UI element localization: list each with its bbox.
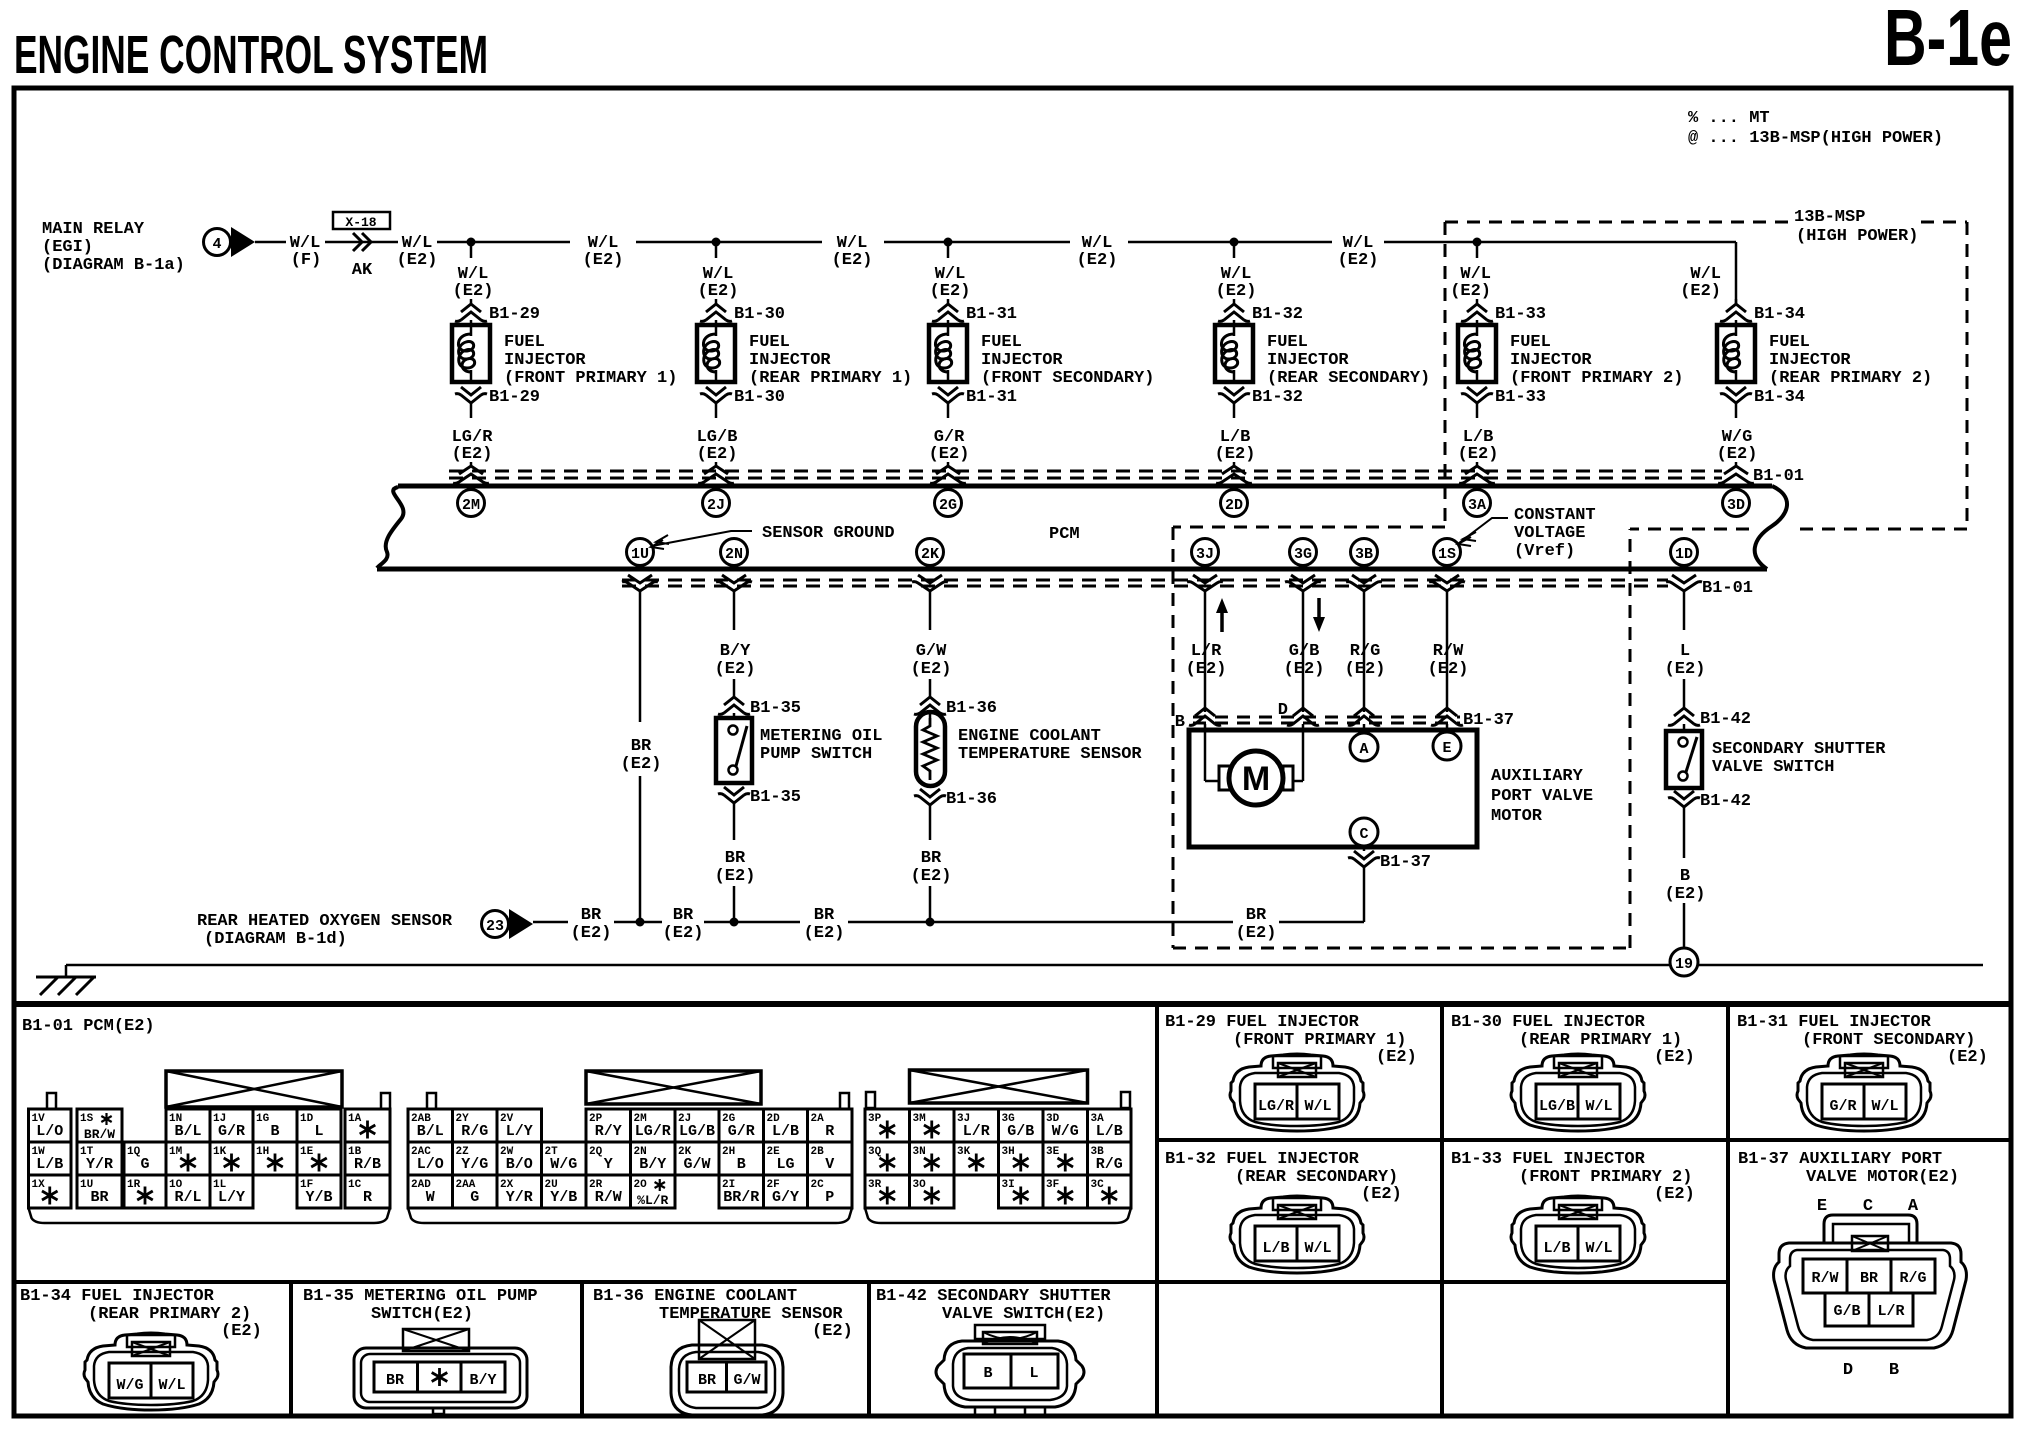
svg-text:2Q: 2Q <box>589 1146 603 1158</box>
svg-text:4: 4 <box>212 236 221 253</box>
svg-text:R/Y: R/Y <box>595 1123 622 1140</box>
svg-text:Y/B: Y/B <box>305 1189 332 1206</box>
svg-text:1Q: 1Q <box>127 1146 141 1158</box>
PCM left torn-edge squiggle <box>377 487 403 568</box>
svg-text:B1-34: B1-34 <box>1754 305 1805 324</box>
svg-text:(E2): (E2) <box>1284 660 1325 679</box>
svg-text:B1-32: B1-32 <box>1252 305 1303 324</box>
svg-text:REAR HEATED OXYGEN SENSOR: REAR HEATED OXYGEN SENSOR <box>197 912 453 931</box>
svg-text:G: G <box>140 1156 149 1173</box>
svg-text:13B-MSP: 13B-MSP <box>1794 208 1865 227</box>
junction BR/1U <box>636 918 645 927</box>
svg-text:G/R: G/R <box>218 1123 245 1140</box>
svg-text:BR: BR <box>673 906 694 925</box>
svg-text:B1-37: B1-37 <box>1380 853 1431 872</box>
svg-text:3H: 3H <box>1002 1146 1015 1158</box>
connector boundary B1-01 upper <box>449 470 1722 473</box>
injector coil <box>1735 320 1738 325</box>
svg-text:1U: 1U <box>631 546 649 563</box>
svg-text:FUEL: FUEL <box>504 333 545 352</box>
svg-text:(E2): (E2) <box>1665 660 1706 679</box>
svg-text:AK: AK <box>352 261 373 280</box>
svg-text:SENSOR GROUND: SENSOR GROUND <box>762 524 895 543</box>
svg-text:(E2): (E2) <box>698 282 739 301</box>
PCM connector B1-01 segment 1 <box>166 1071 342 1107</box>
svg-text:E: E <box>1442 740 1451 757</box>
svg-text:2H: 2H <box>722 1146 735 1158</box>
pin C <box>1350 818 1378 846</box>
svg-text:B1-32: B1-32 <box>1252 388 1303 407</box>
svg-text:VOLTAGE: VOLTAGE <box>1514 524 1585 543</box>
svg-text:B1-36: B1-36 <box>946 699 997 718</box>
auxiliary port valve motor box <box>1189 730 1477 847</box>
svg-text:AUXILIARY: AUXILIARY <box>1491 767 1584 786</box>
svg-text:R/G: R/G <box>1899 1270 1926 1287</box>
svg-text:BR: BR <box>90 1189 108 1206</box>
svg-text:INJECTOR: INJECTOR <box>749 351 831 370</box>
svg-text:(E2): (E2) <box>804 924 845 943</box>
svg-text:VALVE MOTOR(E2): VALVE MOTOR(E2) <box>1806 1168 1959 1187</box>
svg-text:1K: 1K <box>213 1146 227 1158</box>
fuel injector B1-31 branch <box>944 238 953 247</box>
svg-text:(E2): (E2) <box>397 251 438 270</box>
svg-text:B1-34: B1-34 <box>1754 388 1805 407</box>
PCM pin 3G <box>1290 539 1317 566</box>
svg-text:P: P <box>825 1189 834 1206</box>
svg-text:(E2): (E2) <box>715 660 756 679</box>
svg-text:(E2): (E2) <box>571 924 612 943</box>
svg-text:1S: 1S <box>1438 546 1456 563</box>
svg-text:BR: BR <box>725 849 746 868</box>
svg-text:(E2): (E2) <box>832 251 873 270</box>
arrow up (valve open direction) <box>1220 608 1224 632</box>
svg-text:(E2): (E2) <box>452 445 493 464</box>
svg-text:B/L: B/L <box>174 1123 201 1140</box>
svg-text:INJECTOR: INJECTOR <box>504 351 586 370</box>
svg-text:L/Y: L/Y <box>218 1189 245 1206</box>
svg-text:(E2): (E2) <box>930 282 971 301</box>
svg-text:3A: 3A <box>1468 497 1486 514</box>
svg-text:R/W: R/W <box>1811 1270 1838 1287</box>
PCM connector B1-01 segment 2 <box>586 1071 761 1104</box>
svg-text:R/G: R/G <box>461 1123 488 1140</box>
fuel injector B1-33 branch <box>1473 238 1482 247</box>
svg-text:PORT VALVE: PORT VALVE <box>1491 787 1593 806</box>
pin A <box>1363 724 1366 733</box>
svg-text:LG: LG <box>776 1156 794 1173</box>
svg-text:B1-31 FUEL INJECTOR: B1-31 FUEL INJECTOR <box>1737 1013 1932 1032</box>
svg-text:E: E <box>1817 1197 1827 1216</box>
svg-text:Y/G: Y/G <box>461 1156 488 1173</box>
svg-text:2D: 2D <box>1225 497 1243 514</box>
connector chevron under pin 2K <box>918 575 942 583</box>
svg-text:(FRONT PRIMARY 2): (FRONT PRIMARY 2) <box>1510 369 1683 388</box>
svg-text:(E2): (E2) <box>1450 282 1491 301</box>
svg-text:X-18: X-18 <box>345 215 376 230</box>
svg-text:A: A <box>1908 1197 1919 1216</box>
svg-text:B/O: B/O <box>506 1156 533 1173</box>
svg-text:1H: 1H <box>256 1146 269 1158</box>
ground bus <box>66 964 1670 967</box>
svg-text:R: R <box>825 1123 834 1140</box>
connector chevron under pin 3J <box>1193 575 1217 583</box>
svg-text:W/L: W/L <box>1304 1098 1331 1115</box>
svg-text:B1-31: B1-31 <box>966 388 1017 407</box>
ground symbol <box>65 965 68 977</box>
svg-text:D: D <box>1278 701 1288 720</box>
svg-text:G/Y: G/Y <box>772 1189 799 1206</box>
svg-text:B1-29 FUEL INJECTOR: B1-29 FUEL INJECTOR <box>1165 1013 1360 1032</box>
svg-text:W/G: W/G <box>550 1156 577 1173</box>
wire 3G to motor <box>1302 724 1305 781</box>
connector chevron under pin 1D <box>1672 575 1696 583</box>
svg-text:1S: 1S <box>80 1113 94 1125</box>
svg-text:G/W: G/W <box>916 642 947 661</box>
svg-text:W/L: W/L <box>1871 1098 1898 1115</box>
svg-text:FUEL: FUEL <box>1267 333 1308 352</box>
svg-text:(E2): (E2) <box>1338 251 1379 270</box>
svg-text:BR: BR <box>1860 1270 1878 1287</box>
svg-text:L/B: L/B <box>1262 1240 1289 1257</box>
connector chevron under pin 1S <box>1435 575 1459 583</box>
PCM pin 2J <box>703 490 730 517</box>
PCM connector B1-01 segment 3 <box>910 1070 1088 1103</box>
svg-text:Y/B: Y/B <box>550 1189 577 1206</box>
svg-text:W/L: W/L <box>1585 1240 1612 1257</box>
svg-text:(REAR PRIMARY 2): (REAR PRIMARY 2) <box>1769 369 1932 388</box>
svg-text:A: A <box>1359 741 1368 758</box>
injector coil <box>1476 320 1479 325</box>
svg-text:L/Y: L/Y <box>506 1123 533 1140</box>
wire L from pin 1D <box>1683 591 1686 630</box>
svg-text:R/G: R/G <box>1350 642 1381 661</box>
svg-text:2N: 2N <box>725 546 743 563</box>
svg-text:G/B: G/B <box>1289 642 1320 661</box>
svg-text:B1-32 FUEL INJECTOR: B1-32 FUEL INJECTOR <box>1165 1150 1360 1169</box>
injector coil <box>715 320 718 325</box>
svg-text:(E2): (E2) <box>1077 251 1118 270</box>
svg-text:B1-31: B1-31 <box>966 305 1017 324</box>
svg-text:3N: 3N <box>913 1146 926 1158</box>
svg-text:BR: BR <box>581 906 602 925</box>
svg-text:LG/B: LG/B <box>679 1123 715 1140</box>
svg-text:Y/R: Y/R <box>506 1189 533 1206</box>
wire G/W from pin 2K <box>929 591 932 630</box>
svg-text:B1-29: B1-29 <box>489 388 540 407</box>
svg-text:1E: 1E <box>300 1146 314 1158</box>
PCM pin 1U <box>627 539 654 566</box>
svg-text:B1-36 ENGINE COOLANT: B1-36 ENGINE COOLANT <box>593 1287 797 1306</box>
svg-text:FUEL: FUEL <box>1769 333 1810 352</box>
svg-text:B1-30 FUEL INJECTOR: B1-30 FUEL INJECTOR <box>1451 1013 1646 1032</box>
svg-text:L: L <box>1680 642 1690 661</box>
svg-text:B1-30: B1-30 <box>734 388 785 407</box>
svg-text:R: R <box>363 1189 372 1206</box>
svg-text:1D: 1D <box>300 1113 314 1125</box>
svg-text:B1-01 PCM(E2): B1-01 PCM(E2) <box>22 1017 155 1036</box>
wire R/W from pin 1S <box>1446 591 1449 712</box>
svg-text:3P: 3P <box>868 1113 882 1125</box>
svg-text:(E2): (E2) <box>1947 1048 1988 1067</box>
svg-text:BR/W: BR/W <box>84 1127 115 1142</box>
svg-text:(E2): (E2) <box>1186 660 1227 679</box>
svg-text:1C: 1C <box>348 1179 362 1191</box>
PCM pin 2G <box>935 490 962 517</box>
engine coolant temperature sensor B1-36 <box>929 713 932 718</box>
svg-text:G/B: G/B <box>1007 1123 1034 1140</box>
svg-text:(E2): (E2) <box>1680 282 1721 301</box>
svg-text:VALVE SWITCH: VALVE SWITCH <box>1712 758 1834 777</box>
node 4 (from diagram B-1a) <box>204 229 231 256</box>
svg-text:(FRONT SECONDARY): (FRONT SECONDARY) <box>981 369 1154 388</box>
svg-text:(F): (F) <box>291 251 322 270</box>
metering oil pump switch B1-35 <box>733 713 736 718</box>
svg-text:INJECTOR: INJECTOR <box>1510 351 1592 370</box>
svg-text:G/W: G/W <box>683 1156 710 1173</box>
svg-text:3O: 3O <box>913 1179 927 1191</box>
PCM lower pin row bus <box>377 567 1767 572</box>
svg-text:B1-37 AUXILIARY PORT: B1-37 AUXILIARY PORT <box>1738 1150 1942 1169</box>
connector chevron under pin 2N <box>722 575 746 583</box>
svg-text:(Vref): (Vref) <box>1514 542 1575 561</box>
svg-text:LG/B: LG/B <box>1539 1098 1575 1115</box>
svg-text:(E2): (E2) <box>1654 1048 1695 1067</box>
svg-text:B1-42: B1-42 <box>1700 710 1751 729</box>
svg-text:VALVE SWITCH(E2): VALVE SWITCH(E2) <box>942 1305 1105 1324</box>
svg-text:FUEL: FUEL <box>981 333 1022 352</box>
PCM pin 2D <box>1221 490 1248 517</box>
svg-text:MOTOR: MOTOR <box>1491 807 1543 826</box>
svg-text:(E2): (E2) <box>1361 1185 1402 1204</box>
motor M <box>1229 751 1283 805</box>
svg-text:3D: 3D <box>1727 497 1745 514</box>
svg-text:(E2): (E2) <box>1345 660 1386 679</box>
svg-text:W: W <box>426 1189 435 1206</box>
svg-text:(HIGH POWER): (HIGH POWER) <box>1796 227 1918 246</box>
PCM pin 1D <box>1671 539 1698 566</box>
svg-text:PUMP SWITCH: PUMP SWITCH <box>760 745 872 764</box>
fuel injector B1-32 branch <box>1230 238 1239 247</box>
svg-text:(DIAGRAM B-1a): (DIAGRAM B-1a) <box>42 256 185 275</box>
bottom table frame <box>14 1001 2011 1007</box>
junction BR/B1-36 <box>926 918 935 927</box>
wire G/B from pin 3G <box>1302 591 1305 712</box>
svg-text:INJECTOR: INJECTOR <box>1267 351 1349 370</box>
svg-text:C: C <box>1863 1197 1873 1216</box>
svg-text:L/R: L/R <box>963 1123 990 1140</box>
svg-text:2B: 2B <box>811 1146 825 1158</box>
wire W/L (F) <box>255 241 286 244</box>
svg-text:INJECTOR: INJECTOR <box>1769 351 1851 370</box>
svg-text:(E2): (E2) <box>1665 885 1706 904</box>
svg-text:BR: BR <box>1246 906 1267 925</box>
svg-text:BR: BR <box>631 737 652 756</box>
fuel injector B1-30 branch <box>712 238 721 247</box>
svg-text:(FRONT PRIMARY 1): (FRONT PRIMARY 1) <box>504 369 677 388</box>
svg-text:G/R: G/R <box>728 1123 755 1140</box>
PCM upper pin row bus <box>398 484 1772 489</box>
svg-text:B: B <box>270 1123 279 1140</box>
svg-text:INJECTOR: INJECTOR <box>981 351 1063 370</box>
svg-text:G/W: G/W <box>733 1372 760 1389</box>
svg-text:M: M <box>1242 760 1270 798</box>
svg-text:C: C <box>1359 826 1368 843</box>
svg-text:LG/R: LG/R <box>1258 1098 1294 1115</box>
svg-text:3G: 3G <box>1294 546 1312 563</box>
svg-text:3K: 3K <box>957 1146 971 1158</box>
svg-text:3E: 3E <box>1046 1146 1060 1158</box>
svg-text:BR: BR <box>921 849 942 868</box>
connector chevron under pin 3B <box>1352 575 1376 583</box>
svg-text:(E2): (E2) <box>929 445 970 464</box>
svg-text:3C: 3C <box>1091 1179 1105 1191</box>
svg-text:(E2): (E2) <box>1216 282 1257 301</box>
svg-text:3Q: 3Q <box>868 1146 882 1158</box>
svg-text:B1-29: B1-29 <box>489 305 540 324</box>
PCM right torn-edge squiggle <box>1755 486 1787 569</box>
svg-text:D: D <box>1843 1361 1853 1380</box>
svg-text:L/B: L/B <box>1096 1123 1123 1140</box>
PCM pin 3J <box>1192 539 1219 566</box>
svg-text:2C: 2C <box>811 1179 825 1191</box>
svg-text:B1-36: B1-36 <box>946 790 997 809</box>
svg-text:R/B: R/B <box>354 1156 381 1173</box>
svg-text:(E2): (E2) <box>621 755 662 774</box>
svg-text:L/B: L/B <box>1543 1240 1570 1257</box>
svg-text:FUEL: FUEL <box>749 333 790 352</box>
svg-text:(E2): (E2) <box>812 1322 853 1341</box>
svg-text:(EGI): (EGI) <box>42 238 93 257</box>
svg-text:W/G: W/G <box>1052 1123 1079 1140</box>
svg-text:1R: 1R <box>127 1179 141 1191</box>
svg-text:2M: 2M <box>462 497 480 514</box>
svg-text:ENGINE CONTROL SYSTEM: ENGINE CONTROL SYSTEM <box>14 25 488 85</box>
connector X-18 <box>325 241 398 244</box>
svg-text:2K: 2K <box>921 546 939 563</box>
svg-text:(E2): (E2) <box>1236 924 1277 943</box>
svg-text:BR: BR <box>386 1372 404 1389</box>
svg-text:FUEL: FUEL <box>1510 333 1551 352</box>
svg-text:(E2): (E2) <box>1654 1185 1695 1204</box>
svg-text:(DIAGRAM B-1d): (DIAGRAM B-1d) <box>204 930 347 949</box>
connector chevron under pin 1U <box>628 575 652 583</box>
svg-text:@ ... 13B-MSP(HIGH POWER): @ ... 13B-MSP(HIGH POWER) <box>1688 129 1943 148</box>
svg-text:B: B <box>737 1156 746 1173</box>
injector coil <box>470 320 473 325</box>
PCM pin 2N <box>721 539 748 566</box>
svg-text:CONSTANT: CONSTANT <box>1514 506 1596 525</box>
sensor ground annotation <box>652 531 752 546</box>
svg-text:1A: 1A <box>348 1113 362 1125</box>
svg-text:3I: 3I <box>1002 1179 1015 1191</box>
svg-text:3J: 3J <box>1196 546 1214 563</box>
svg-text:B/L: B/L <box>417 1123 444 1140</box>
svg-text:G/B: G/B <box>1833 1303 1860 1320</box>
fuel injector B1-29 branch <box>467 238 476 247</box>
svg-text:2G: 2G <box>939 497 957 514</box>
svg-text:B/Y: B/Y <box>469 1372 496 1389</box>
svg-text:R/G: R/G <box>1096 1156 1123 1173</box>
svg-text:B-1e: B-1e <box>1884 0 2012 82</box>
svg-text:2A: 2A <box>811 1113 825 1125</box>
svg-text:%L/R: %L/R <box>637 1193 668 1208</box>
svg-text:B1-37: B1-37 <box>1463 711 1514 730</box>
wire 3J to motor <box>1204 724 1207 781</box>
svg-text:(E2): (E2) <box>663 924 704 943</box>
svg-text:% ... MT: % ... MT <box>1688 109 1770 128</box>
svg-text:(E2): (E2) <box>715 867 756 886</box>
svg-text:B: B <box>1680 867 1690 886</box>
PCM pin 3D <box>1723 490 1750 517</box>
svg-text:L: L <box>314 1123 323 1140</box>
svg-text:3M: 3M <box>913 1113 927 1125</box>
svg-text:W/L: W/L <box>1304 1240 1331 1257</box>
svg-text:B1-42 SECONDARY SHUTTER: B1-42 SECONDARY SHUTTER <box>876 1287 1111 1306</box>
svg-text:ENGINE COOLANT: ENGINE COOLANT <box>958 727 1101 746</box>
svg-text:B1-33: B1-33 <box>1495 388 1546 407</box>
svg-text:B/Y: B/Y <box>720 642 751 661</box>
svg-text:W/L: W/L <box>1585 1098 1612 1115</box>
svg-text:LG/R: LG/R <box>635 1123 671 1140</box>
svg-text:(E2): (E2) <box>583 251 624 270</box>
svg-text:L/B: L/B <box>772 1123 799 1140</box>
svg-text:PCM: PCM <box>1049 525 1080 544</box>
pin E <box>1446 724 1449 732</box>
svg-text:L/O: L/O <box>417 1156 444 1173</box>
auxiliary port valve motor dashed region <box>1173 526 1445 529</box>
connector chevron under pin 3G <box>1291 575 1315 583</box>
svg-text:L/B: L/B <box>36 1156 63 1173</box>
wire R/G from pin 3B <box>1363 591 1366 712</box>
svg-text:B: B <box>1175 713 1185 732</box>
PCM pin 3B <box>1351 539 1378 566</box>
svg-text:2J: 2J <box>707 497 725 514</box>
svg-text:(E2): (E2) <box>221 1322 262 1341</box>
svg-text:R/W: R/W <box>1433 642 1464 661</box>
svg-text:Y/R: Y/R <box>86 1156 113 1173</box>
svg-text:B1-33 FUEL INJECTOR: B1-33 FUEL INJECTOR <box>1451 1150 1646 1169</box>
injector coil <box>947 320 950 325</box>
13B-MSP (HIGH POWER) dashed region <box>1445 221 1788 224</box>
svg-text:B1-01: B1-01 <box>1702 579 1753 598</box>
svg-text:(E2): (E2) <box>1458 445 1499 464</box>
svg-text:(E2): (E2) <box>911 660 952 679</box>
secondary shutter valve switch B1-42 <box>1683 724 1686 731</box>
svg-text:(REAR PRIMARY 1): (REAR PRIMARY 1) <box>749 369 912 388</box>
svg-text:Y: Y <box>604 1156 613 1173</box>
PCM pin 3A <box>1464 490 1491 517</box>
injector coil <box>1233 320 1236 325</box>
svg-text:R/W: R/W <box>595 1189 622 1206</box>
svg-text:2O: 2O <box>634 1179 648 1191</box>
svg-text:METERING OIL: METERING OIL <box>760 727 882 746</box>
svg-text:B1-33: B1-33 <box>1495 305 1546 324</box>
svg-text:B1-01: B1-01 <box>1753 467 1804 486</box>
svg-text:(E2): (E2) <box>453 282 494 301</box>
svg-text:B1-34 FUEL INJECTOR: B1-34 FUEL INJECTOR <box>20 1287 215 1306</box>
svg-text:(E2): (E2) <box>697 445 738 464</box>
svg-text:BR: BR <box>698 1372 716 1389</box>
svg-text:G/R: G/R <box>1829 1098 1856 1115</box>
svg-text:1G: 1G <box>256 1113 270 1125</box>
wire B/Y from pin 2N <box>733 591 736 630</box>
svg-text:B1-42: B1-42 <box>1700 792 1751 811</box>
svg-text:B1-35: B1-35 <box>750 699 801 718</box>
svg-text:L/R: L/R <box>1191 642 1222 661</box>
svg-text:L/O: L/O <box>36 1123 63 1140</box>
PCM pin 1S <box>1434 539 1461 566</box>
svg-text:B: B <box>983 1365 992 1382</box>
